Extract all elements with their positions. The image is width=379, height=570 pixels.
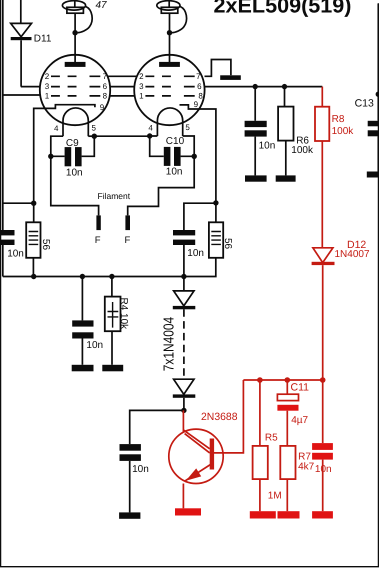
node cathode V1 xyxy=(31,201,36,206)
wire 56L to bus xyxy=(32,258,34,277)
wire collector to bottom cap xyxy=(130,410,184,444)
top cap flying lead arc V1 xyxy=(78,7,93,33)
svg-text:7: 7 xyxy=(196,72,201,81)
wire rectifier chain top xyxy=(183,277,185,291)
tube V1 grid row pins 3-6 xyxy=(51,86,100,88)
transistor Q1 emitter arrow xyxy=(186,468,201,480)
top cap flying lead arc V2 xyxy=(172,7,187,33)
ground bar (bias cap) xyxy=(312,511,333,518)
tube V2 grid row pins 3-6 xyxy=(145,86,194,88)
svg-text:56: 56 xyxy=(40,239,51,251)
wire V1 pin4 to C9 left xyxy=(51,136,99,215)
wire bias bus xyxy=(243,379,322,381)
svg-text:10n: 10n xyxy=(166,167,183,178)
svg-text:1: 1 xyxy=(139,91,144,100)
diode chain 7x1N4004 top diode xyxy=(174,291,194,306)
capacitor 10n (bottom) xyxy=(120,444,141,451)
capacitor C13 (right edge, clipped) xyxy=(368,121,379,127)
svg-text:7: 7 xyxy=(103,72,108,81)
svg-text:9: 9 xyxy=(194,100,199,109)
tube V2 anode plate xyxy=(159,62,180,67)
svg-text:4µ7: 4µ7 xyxy=(291,415,308,426)
svg-text:4k7: 4k7 xyxy=(298,461,315,472)
svg-text:R8: R8 xyxy=(332,114,345,125)
tube V1 envelope xyxy=(40,55,110,125)
diode chain 7x1N4004 bottom diode xyxy=(174,379,194,394)
tube V2 heater bump pins 4-5 xyxy=(157,108,182,136)
ground bar (bottom cap) xyxy=(119,512,140,518)
ground bar (R7) xyxy=(278,511,300,518)
node bus cap xyxy=(80,274,85,279)
wire left net to cathode node xyxy=(3,202,34,204)
capacitor C9 xyxy=(65,147,72,166)
diode D11 wire from top xyxy=(20,0,22,23)
tube V1 anode plate xyxy=(65,62,86,67)
ground bar (screen cap) xyxy=(245,175,267,181)
svg-text:100k: 100k xyxy=(291,145,314,156)
svg-text:2N3688: 2N3688 xyxy=(201,411,238,423)
svg-text:D11: D11 xyxy=(34,34,52,45)
wire filament zigzag xyxy=(128,156,195,215)
svg-text:3: 3 xyxy=(139,82,144,91)
svg-text:8: 8 xyxy=(103,91,108,100)
capacitor C11 electrolytic xyxy=(277,394,298,400)
svg-text:C10: C10 xyxy=(166,136,185,147)
wire R7 to ground xyxy=(286,479,288,511)
wire collector red xyxy=(182,410,184,431)
wire V2 pin7 step xyxy=(205,60,231,77)
node R5 branch xyxy=(257,377,263,383)
resistor R8 xyxy=(315,107,329,141)
tube V1 cathode lead pin 9 xyxy=(34,105,95,223)
node V1 pin5 xyxy=(92,134,97,139)
ground bar (emitter) xyxy=(175,508,201,515)
capacitor 10n (right filament) xyxy=(173,230,195,235)
node V2 pin4 xyxy=(147,133,152,138)
ground bar (R4) xyxy=(102,365,123,372)
tube V2 grid row pins 1-8 xyxy=(145,95,194,97)
capacitor C10 xyxy=(164,147,171,166)
wire R4 top xyxy=(111,277,113,297)
wire V2 pin5 to C10 right xyxy=(181,136,195,156)
tube V2 top cap stub xyxy=(168,0,170,7)
tube V2 envelope xyxy=(134,55,204,125)
wire V1 pin5 xyxy=(88,135,94,137)
wire heater bus xyxy=(94,135,149,137)
capacitor 10n (screen) xyxy=(245,121,267,127)
node bus 56L xyxy=(31,274,36,279)
svg-text:10n: 10n xyxy=(132,464,149,475)
svg-text:5: 5 xyxy=(92,124,97,133)
wire R5 to ground xyxy=(259,479,261,511)
resistor 56 (right) xyxy=(209,222,223,257)
node C13 xyxy=(376,92,379,97)
svg-text:C11: C11 xyxy=(291,382,310,394)
labels tube V2 pins xyxy=(139,72,203,133)
svg-text:10n: 10n xyxy=(259,140,276,151)
wire screen cap to ground xyxy=(254,137,256,176)
wire C13 net xyxy=(377,4,379,121)
wires link V1-V2 pins xyxy=(108,76,137,96)
svg-text:3: 3 xyxy=(45,82,50,91)
wire screen cap xyxy=(254,87,256,121)
ground bar (R6) xyxy=(276,175,296,181)
wire to tube V1 pin 1 xyxy=(3,94,41,96)
svg-text:1N4007: 1N4007 xyxy=(335,249,370,260)
wire mid cap to ground xyxy=(81,339,83,365)
wire rectifier chain bottom xyxy=(183,398,185,411)
svg-text:2: 2 xyxy=(139,72,144,81)
diode D11 xyxy=(11,23,32,36)
tube V1 top cap stub xyxy=(74,0,76,7)
wire dashed omitted diodes xyxy=(183,309,185,379)
svg-text:10n: 10n xyxy=(315,464,332,475)
wire bottom cap to ground xyxy=(129,461,131,513)
resistor R7 xyxy=(280,446,295,479)
resistor R5 xyxy=(253,446,268,479)
node C10 right xyxy=(192,154,197,159)
svg-text:F: F xyxy=(125,235,131,246)
wire R8 top xyxy=(321,87,323,107)
svg-text:C13: C13 xyxy=(355,98,374,110)
wire R6 to ground xyxy=(285,141,287,176)
svg-text:2xEL509(519): 2xEL509(519) xyxy=(214,0,352,18)
capacitor 10n (bias) xyxy=(312,443,333,450)
node top cap V2 xyxy=(167,30,172,35)
svg-text:100k: 100k xyxy=(332,126,355,137)
svg-text:C9: C9 xyxy=(66,138,79,149)
wire bias cap to ground xyxy=(322,460,324,512)
filament pin F2 xyxy=(125,215,130,230)
terminal bar g2 xyxy=(220,75,241,80)
capacitor 10n (left edge, clipped) xyxy=(0,230,15,235)
tube V1 grid row pins 2-7 xyxy=(51,75,100,77)
svg-text:47: 47 xyxy=(96,0,108,11)
wire C11 to R7 xyxy=(286,411,288,446)
wire right filament cap xyxy=(184,203,216,276)
wire R6 top xyxy=(284,87,286,107)
wire C11 top xyxy=(286,380,288,394)
ground bar (mid cap) xyxy=(72,365,94,372)
wire C13 to ground xyxy=(377,136,379,171)
wire mid cap top xyxy=(81,277,83,321)
filament pin F1 xyxy=(96,215,100,230)
wire bottom cathode bus xyxy=(3,258,216,277)
wire R5 top xyxy=(259,380,261,446)
wire screen node from V2 pin6 xyxy=(205,86,323,88)
wire top cap to V2 anode xyxy=(169,13,171,62)
node C9 left xyxy=(48,154,53,159)
svg-text:6: 6 xyxy=(197,82,202,91)
transistor Q1 collector strokes xyxy=(183,430,209,453)
transistor Q1 base bar xyxy=(210,439,214,470)
svg-text:R5: R5 xyxy=(265,432,278,443)
node collector xyxy=(181,408,186,413)
svg-text:R4 10k: R4 10k xyxy=(118,298,129,331)
svg-text:56: 56 xyxy=(222,238,233,250)
wire emitter to ground xyxy=(182,484,184,509)
svg-text:9: 9 xyxy=(100,103,105,112)
resistor R4 xyxy=(105,297,121,332)
svg-text:Filament: Filament xyxy=(98,191,131,201)
wire D11 to tube V1 pin 3 xyxy=(21,40,40,86)
node R6 branch xyxy=(282,84,287,89)
diode D12 xyxy=(313,248,333,263)
node top cap V1 xyxy=(72,30,77,35)
node cathode V2 xyxy=(213,200,218,205)
svg-text:4: 4 xyxy=(54,124,59,133)
tube V1 top cap connector xyxy=(62,1,85,10)
tube V1 grid row pins 1-8 xyxy=(51,95,100,97)
wire D12 to bias bus xyxy=(322,265,324,443)
labels tube V1 pins xyxy=(45,72,108,133)
transistor Q1 emitter xyxy=(184,464,210,481)
node bus rectifier xyxy=(181,274,186,279)
svg-text:1M: 1M xyxy=(268,491,282,502)
wire top cap to V1 anode xyxy=(74,13,76,62)
svg-text:8: 8 xyxy=(198,91,203,100)
wire R4 to ground xyxy=(111,331,113,365)
tube V2 cathode lead pin 9 xyxy=(180,105,216,222)
tube V1 heater bump pins 4-5 xyxy=(63,108,88,136)
tube V2 grid row pins 2-7 xyxy=(145,75,194,77)
svg-text:4: 4 xyxy=(148,124,153,133)
resistor 56 (left) xyxy=(26,222,40,257)
node bias main xyxy=(320,377,326,383)
node C11 branch xyxy=(285,377,291,383)
wire V2 pin4 xyxy=(150,136,164,156)
node screen cap branch xyxy=(253,84,258,89)
svg-text:7x1N4004: 7x1N4004 xyxy=(162,317,178,372)
svg-text:5: 5 xyxy=(185,123,190,132)
wire bias to base xyxy=(214,380,244,453)
svg-text:10n: 10n xyxy=(7,248,24,259)
svg-text:F: F xyxy=(95,235,101,246)
resistor R6 xyxy=(278,107,293,141)
wire left border net from off-page top xyxy=(2,0,4,277)
svg-text:6: 6 xyxy=(103,82,108,91)
tube V2 top cap connector xyxy=(157,1,180,10)
svg-text:10n: 10n xyxy=(66,167,83,178)
wire C9 xyxy=(51,136,95,156)
transistor Q1 2N3688 envelope xyxy=(169,429,223,483)
svg-text:10n: 10n xyxy=(187,248,204,259)
svg-text:1: 1 xyxy=(45,91,50,100)
capacitor 10n (cathode mid) xyxy=(72,320,93,326)
svg-text:10n: 10n xyxy=(86,340,103,351)
ground bar (R5) xyxy=(250,511,276,518)
node bus R4 xyxy=(109,274,114,279)
wire R8 to D12 xyxy=(321,141,323,248)
svg-text:2: 2 xyxy=(45,72,50,81)
ground bar (C13, clipped) xyxy=(367,172,379,178)
